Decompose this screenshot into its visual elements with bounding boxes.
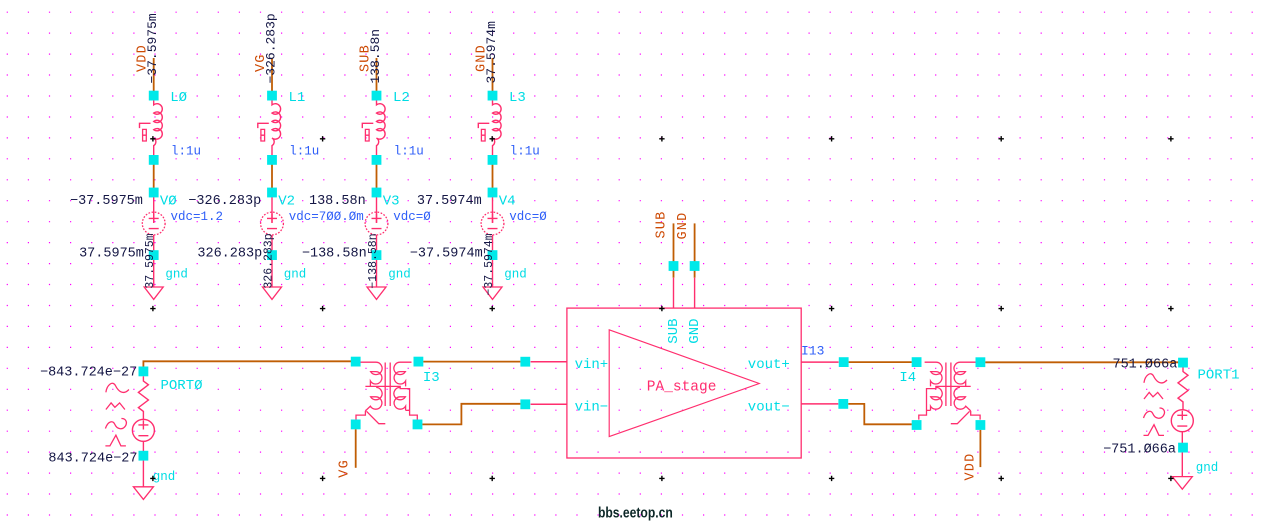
grid crosses [150,136,1173,481]
svg-text:GND: GND [475,44,490,72]
svg-text:GND: GND [687,318,703,343]
svg-text:V4: V4 [499,194,516,210]
wire between L2 and V source branch 3 [376,160,378,192]
wire vout- [848,404,912,424]
node squares PORT1 [1178,358,1188,368]
svg-text:L2: L2 [393,90,410,106]
svg-text:SUB: SUB [666,318,682,343]
svg-text:l:1u: l:1u [289,145,319,159]
pin stubs into PA top [674,278,695,308]
vdc source V&#216; [153,197,155,223]
svg-text:−37.5974m: −37.5974m [410,247,483,262]
svg-text:37.5975m: 37.5975m [79,247,144,262]
svg-text:I3: I3 [423,370,440,386]
svg-text:l:1u: l:1u [510,145,540,159]
PA_stage block U (box) [567,308,801,458]
svg-text:SUB: SUB [655,211,670,239]
wire net GND above PA [694,223,696,277]
svg-text:−751.Ø66a: −751.Ø66a [1103,443,1176,458]
wire net VG stub [355,429,357,468]
node squares branch 3 [372,91,382,101]
wire net VDD top stub branch 1 [153,58,155,95]
ground symbol PORT1 [1172,477,1192,490]
svg-text:−326.283p: −326.283p [188,194,261,209]
transformer I3 [356,362,417,424]
port PORT1 symbol [1178,368,1188,410]
svg-text:vdc=Ø: vdc=Ø [509,210,547,224]
node squares branch 4 [488,91,498,101]
vdc source V4 [492,197,494,223]
svg-text:−138.58n: −138.58n [367,233,380,288]
svg-text:vin+: vin+ [575,357,609,373]
wire between L3 and V source branch 4 [492,160,494,192]
svg-text:VDD: VDD [964,453,979,481]
svg-text:VG: VG [254,53,269,72]
inductor L2 [377,100,386,159]
svg-text:l:1u: l:1u [394,145,424,159]
svg-text:L3: L3 [509,90,526,106]
svg-text:−37.5975m: −37.5975m [70,194,143,209]
wire vout+ [849,361,912,363]
vdc source V3 [376,197,378,223]
wire net VG top stub branch 2 [271,58,273,95]
svg-text:vdc=Ø: vdc=Ø [393,210,431,224]
svg-text:vdc=1.2: vdc=1.2 [171,210,224,224]
svg-text:vout−: vout− [748,399,790,415]
svg-text:37.5975m: 37.5975m [144,233,157,288]
ground symbol PORT0 [133,487,153,500]
ground symbol branch 3 [367,287,386,299]
inductor L1 [272,100,281,159]
ground symbol branch 4 [483,287,502,299]
svg-text:326.283p: 326.283p [262,233,275,288]
svg-text:−138.58n: −138.58n [302,247,367,262]
svg-text:vdc=7ØØ.Øm: vdc=7ØØ.Øm [289,210,364,224]
inductor L&#216; [154,100,163,159]
svg-text:−37.5974m: −37.5974m [483,233,496,295]
svg-text:PORTØ: PORTØ [161,378,203,394]
node squares I4 [912,357,922,367]
transformer I4 (mirrored) [919,362,980,424]
port sine squiggles PORT0 [106,383,129,392]
PA_stage amp triangle [609,330,759,437]
svg-text:843.724e−27: 843.724e−27 [48,451,137,466]
svg-text:−843.724e−27: −843.724e−27 [40,365,137,380]
wire net SUB top stub branch 3 [376,58,378,95]
svg-text:vout+: vout+ [748,357,790,373]
svg-text:VDD: VDD [136,44,151,72]
wire between L0 and V source branch 1 [153,160,155,192]
svg-text:gnd: gnd [153,470,176,484]
svg-text:gnd: gnd [1196,461,1219,475]
port sine squiggles PORT1 [1144,374,1167,383]
svg-text:PA_stage: PA_stage [647,380,717,396]
wire net GND top stub branch 4 [492,58,494,95]
svg-text:37.5974m: 37.5974m [417,194,482,209]
svg-text:I4: I4 [899,370,916,386]
svg-text:l:1u: l:1u [171,145,201,159]
port PORT0 symbol [138,376,148,419]
wire vout+ to PORT1 [985,361,1180,363]
svg-text:GND: GND [676,212,691,240]
wire vin- [422,404,520,425]
node GND [690,261,700,271]
svg-text:VG: VG [338,459,353,478]
svg-text:326.283p: 326.283p [197,247,262,262]
node squares PORT0 [139,367,149,377]
svg-text:138.58n: 138.58n [309,194,366,209]
svg-text:gnd: gnd [165,268,188,282]
svg-text:bbs.eetop.cn: bbs.eetop.cn [598,504,673,520]
node SUB [669,261,679,271]
svg-text:VØ: VØ [160,194,177,210]
svg-text:vin−: vin− [575,399,609,415]
wire PORT0 to I3 [143,361,351,367]
node squares branch 2 [267,91,277,101]
node squares I3 [351,357,361,367]
ground symbol branch 2 [263,287,282,299]
node vout+ junction [839,357,849,367]
svg-text:V2: V2 [278,194,295,210]
svg-text:LØ: LØ [170,90,187,106]
svg-text:L1: L1 [289,90,306,106]
ground symbol branch 1 [144,287,163,299]
node vin+ [520,357,530,367]
node vin- [520,399,530,409]
svg-text:gnd: gnd [388,268,411,282]
pin stubs left of PA [531,362,567,405]
vdc source V2 [271,197,273,223]
svg-text:SUB: SUB [359,44,374,72]
node vout- junction [838,399,848,409]
svg-text:I13: I13 [801,344,824,359]
wire between L1 and V source branch 2 [271,160,273,192]
svg-text:PORT1: PORT1 [1198,368,1240,384]
wire net SUB above PA [673,223,675,277]
inductor L3 [493,100,502,159]
wire net VDD stub [979,430,981,467]
svg-text:gnd: gnd [284,268,307,282]
svg-text:gnd: gnd [504,268,527,282]
wire vin+ [423,361,520,363]
pin stubs right of PA [801,362,839,404]
node squares branch 1 [149,91,159,101]
svg-text:751.Ø66a: 751.Ø66a [1112,357,1177,372]
svg-text:V3: V3 [383,194,400,210]
